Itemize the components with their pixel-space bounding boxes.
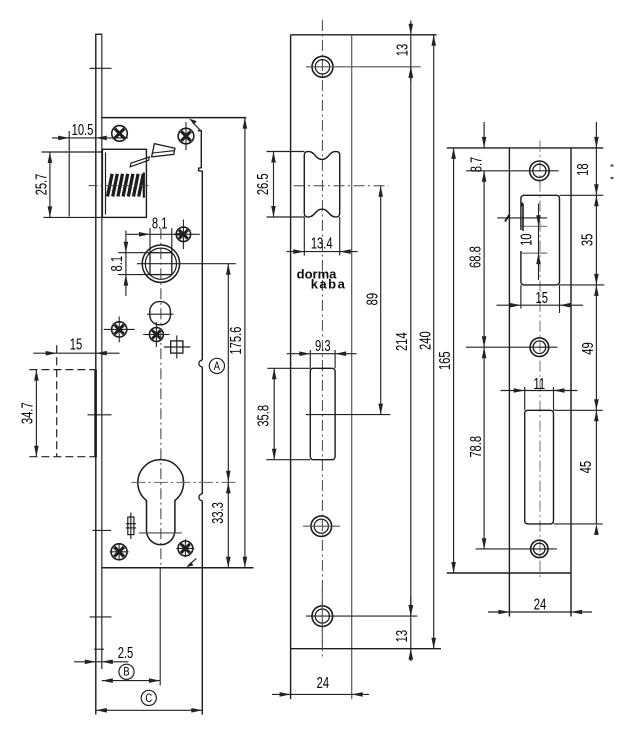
follower horizontal centerline to dim xyxy=(137,263,236,265)
strike tab bent edge line xyxy=(522,204,524,231)
dashed mortise box left xyxy=(29,369,95,371)
dim 34.7 xyxy=(35,370,37,457)
tick on strip y530 xyxy=(93,529,112,531)
svg-text:8.1: 8.1 xyxy=(152,213,168,232)
svg-text:B: B xyxy=(123,666,129,679)
svg-text:9.3: 9.3 xyxy=(315,336,331,355)
screw right of follower xyxy=(176,227,190,241)
svg-text:15: 15 xyxy=(70,334,83,353)
svg-text:214: 214 xyxy=(392,332,411,351)
dim 13 bottom xyxy=(410,596,412,661)
dim 35.8 extensions xyxy=(267,367,310,369)
strike deadbolt cutout xyxy=(525,410,554,524)
dim 8.1 horizontal xyxy=(127,233,200,235)
dim 10.5 extension line xyxy=(68,131,70,217)
dim 18 xyxy=(595,122,597,148)
svg-text:240: 240 xyxy=(415,331,434,350)
oval hole below follower xyxy=(150,302,171,325)
strike middle screw center line xyxy=(466,346,557,348)
dim 8.1 vertical extensions xyxy=(118,252,150,254)
left view: faceplate strip side view - left edge / extension line xyxy=(95,34,97,714)
strike tab reference line xyxy=(497,217,547,219)
faceplate bottom edge / extension xyxy=(291,648,441,650)
strike plate top edge / extensions xyxy=(447,147,604,149)
svg-text:33.3: 33.3 xyxy=(208,502,227,524)
leader arrow bottom right to faceplate xyxy=(188,558,196,565)
strike plate bottom edge / extensions xyxy=(447,572,571,574)
cylinder slot center reference line xyxy=(306,414,391,416)
tick on strip y649 xyxy=(94,648,104,650)
svg-text:26.5: 26.5 xyxy=(253,173,272,195)
screw top-right xyxy=(178,128,194,144)
dim 45 xyxy=(595,410,597,524)
screw top-left xyxy=(112,126,128,142)
dim follower-to-cylinder line with A label xyxy=(227,264,229,568)
lock case right edge lower segment / extension to dim C xyxy=(201,501,203,715)
dim 10.5 xyxy=(52,137,128,139)
left view: faceplate strip right edge xyxy=(101,34,103,669)
screw below oval xyxy=(149,328,163,342)
strike middle screw hole xyxy=(530,338,549,357)
dim 24 middle bottom xyxy=(272,693,369,695)
follower inner circle xyxy=(145,248,176,279)
svg-text:15: 15 xyxy=(535,288,548,307)
dim 26.5 extensions xyxy=(267,151,305,153)
dim 8.1 horizontal extensions xyxy=(149,228,151,253)
faceplate outline left edge xyxy=(290,35,292,699)
latch spring coils xyxy=(108,174,113,197)
faceplate right edge xyxy=(351,35,353,699)
dim B backset xyxy=(159,569,161,686)
top screw crosshair line to dim 13 xyxy=(306,66,421,68)
leader arrow top right to faceplate xyxy=(193,122,203,132)
dim 8.1 vertical xyxy=(125,231,127,296)
svg-text:13: 13 xyxy=(392,630,411,643)
svg-text:8.1: 8.1 xyxy=(107,256,126,272)
dim 35.8 xyxy=(273,368,275,459)
lock case bottom edge xyxy=(102,567,254,569)
faceplate top screw hole xyxy=(312,56,333,77)
lock case right edge notch 1 xyxy=(199,360,202,367)
svg-text:49: 49 xyxy=(578,342,597,355)
svg-text:kaba: kaba xyxy=(311,277,347,292)
latch tail bar xyxy=(130,157,149,167)
dim 9.3 extensions xyxy=(309,350,311,368)
dim 15 left view xyxy=(33,352,119,354)
faceplate middle screw hole xyxy=(311,516,332,537)
svg-text:35.8: 35.8 xyxy=(253,405,272,427)
svg-text:A: A xyxy=(214,360,221,373)
svg-text:C: C xyxy=(145,692,152,705)
dim 68.8 xyxy=(483,171,485,347)
keyhole bottom center tick xyxy=(139,532,182,534)
strike plate centerline xyxy=(539,141,541,580)
dim 33.3 arrows xyxy=(226,482,231,493)
strike tab hidden lines xyxy=(522,225,548,227)
faceplate centerline dash-dot xyxy=(321,20,323,660)
dim 13.4 xyxy=(287,251,358,253)
lock case right edge mid segment xyxy=(201,367,203,494)
dim 26.5 xyxy=(273,152,275,218)
strike bottom screw center line xyxy=(476,548,557,550)
strike bottom screw hole xyxy=(531,540,548,557)
lock case right edge upper segment with hook xyxy=(198,131,203,360)
svg-text:78.8: 78.8 xyxy=(466,436,485,458)
dim C overall depth xyxy=(96,709,203,711)
latch center dash-dot line xyxy=(294,185,389,187)
screw bottom-left xyxy=(111,544,127,560)
spring centerline dash-dot xyxy=(89,185,151,187)
dim 35 strike xyxy=(595,195,597,285)
follower square spindle hole 8.1x8.1 xyxy=(150,253,172,275)
follower outer circle xyxy=(142,245,179,282)
spring seat right line xyxy=(143,173,145,198)
lock case top edge xyxy=(102,117,247,119)
tick on strip y68 xyxy=(90,67,112,69)
screw mid-left xyxy=(112,322,127,337)
dim 13 top xyxy=(410,21,412,82)
oval crosshair xyxy=(147,313,174,315)
strike top screw center line xyxy=(466,170,559,172)
svg-text:18: 18 xyxy=(573,163,592,176)
dim 214 xyxy=(410,67,412,616)
dim 15 extensions xyxy=(520,285,522,309)
dim 11 extensions xyxy=(524,387,526,410)
dashed vertical line x56.7 xyxy=(56,345,58,456)
dim 165 xyxy=(453,148,455,573)
lock case right edge notch 2 xyxy=(199,494,202,501)
svg-text:25.7: 25.7 xyxy=(31,174,50,196)
cylinder fixing screw symbol xyxy=(128,517,134,535)
latch bolt wedge inner line xyxy=(153,151,174,153)
svg-text:11: 11 xyxy=(533,374,545,393)
right chain extensions xyxy=(560,194,604,196)
dim 240 xyxy=(433,35,435,649)
strike plate right edge xyxy=(570,148,572,617)
dim 11 xyxy=(501,390,578,392)
svg-text:24: 24 xyxy=(317,673,330,692)
svg-text:2.5: 2.5 xyxy=(118,643,134,662)
dim 15 strike xyxy=(497,304,584,306)
small mark near cutout top-left xyxy=(521,203,523,207)
dim 49 xyxy=(595,285,597,410)
spring box inner left line xyxy=(105,152,107,214)
circled A label xyxy=(209,358,224,373)
dim 13.4 extensions xyxy=(303,217,305,256)
svg-text:68.8: 68.8 xyxy=(465,246,484,268)
latch cutout with wavy edges xyxy=(304,152,339,217)
svg-text:45: 45 xyxy=(576,461,595,474)
dim 25.7 xyxy=(49,152,51,217)
vertical centerline of lock dash-dot xyxy=(160,228,162,568)
svg-text:13: 13 xyxy=(392,44,411,57)
svg-text:10.5: 10.5 xyxy=(72,120,94,139)
strike plate left edge xyxy=(508,148,510,617)
svg-text:35: 35 xyxy=(577,233,596,246)
dim 25.7 extension lines xyxy=(42,151,103,153)
dim 89 xyxy=(380,186,382,415)
dim A line (175.6 overall) xyxy=(244,118,246,568)
oblique tick on plate edge xyxy=(505,215,510,222)
strike tab dim 10 line xyxy=(538,204,540,281)
svg-text:34.7: 34.7 xyxy=(17,402,36,424)
svg-text:10: 10 xyxy=(516,233,535,246)
dim 24 strike bottom xyxy=(488,611,592,613)
faceplate bottom screw hole xyxy=(312,606,333,627)
svg-text:24: 24 xyxy=(534,594,547,613)
screw bottom-right xyxy=(178,541,193,556)
svg-text:89: 89 xyxy=(362,293,381,306)
svg-text:8.7: 8.7 xyxy=(466,157,485,173)
left view: faceplate strip top cap xyxy=(95,33,102,35)
dim 9.3 xyxy=(287,353,357,355)
spring box outline xyxy=(102,149,146,217)
dim 8.7 xyxy=(483,122,485,148)
faceplate top edge / extension xyxy=(291,34,437,36)
dim 2.5 strip thickness xyxy=(74,661,129,663)
svg-text:165: 165 xyxy=(435,351,454,370)
strike latch cutout xyxy=(521,195,560,285)
svg-text:13.4: 13.4 xyxy=(311,233,333,252)
euro cylinder keyhole xyxy=(138,460,184,545)
small printed dots artifact xyxy=(611,164,614,166)
mortise box right thick edge on strip xyxy=(94,370,97,458)
cylinder center crosshair line xyxy=(131,481,236,483)
tick on strip y415 xyxy=(88,414,112,416)
tick on strip y617 xyxy=(90,616,112,618)
latch bolt wedge xyxy=(152,144,175,157)
bottom screw crosshair to dim 13 xyxy=(306,615,417,617)
cylinder slot 9.3x35.8 xyxy=(310,368,335,459)
strike top screw hole xyxy=(530,161,550,181)
dim 78.8 xyxy=(483,347,485,549)
small square hole with crosshair xyxy=(171,341,183,353)
